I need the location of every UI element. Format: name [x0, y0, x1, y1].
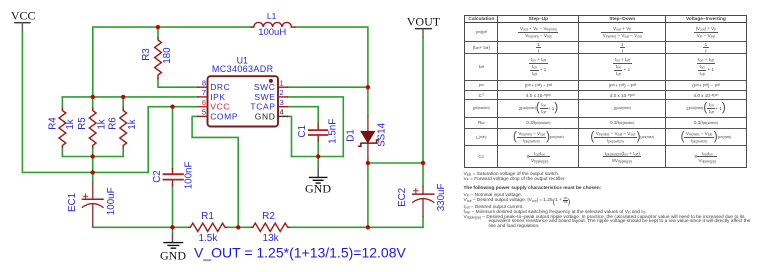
wire R5 stubs [92, 97, 94, 157]
svg-text:3: 3 [280, 98, 284, 107]
wire C2 top / bottom [172, 107, 174, 228]
svg-text:SWC: SWC [254, 82, 276, 92]
svg-text:100nF: 100nF [184, 161, 195, 189]
pin1 marker dot [269, 79, 273, 83]
junction EC2 top / VOUT port [421, 161, 425, 165]
junction C1 bottom / gnd bus [316, 154, 320, 158]
svg-text:8: 8 [202, 79, 206, 88]
wire D1 anode/cathode verticals [367, 87, 369, 163]
net flag VCC [11, 9, 36, 32]
svg-text:R4: R4 [47, 117, 58, 130]
junction D1 cathode / VOUT wire [366, 161, 370, 165]
junction C2 bottom / bottom rail / GND [170, 225, 174, 229]
svg-text:5: 5 [202, 108, 206, 117]
svg-text:TCAP: TCAP [250, 102, 275, 112]
svg-text:13k: 13k [263, 233, 280, 244]
pin 8 lead [198, 86, 208, 88]
svg-text:100uF: 100uF [106, 187, 117, 215]
wire SWC pin1 [288, 86, 368, 88]
wire VOUT port vertical [422, 38, 424, 164]
wire IPK pin7 bus (tops of R4 R5 R6) [62, 96, 198, 98]
svg-text:GND: GND [305, 182, 331, 196]
ground symbol under C2 / bottom rail [160, 227, 186, 262]
pin 2 lead [278, 96, 288, 98]
junction SWC node (L1 / D1 / pin1) [366, 85, 370, 89]
junction bottom rail / VOUT drop [366, 225, 370, 229]
pin 6 lead (highlighted) [198, 106, 208, 108]
svg-text:D1: D1 [346, 129, 357, 142]
svg-text:1k: 1k [127, 119, 138, 129]
svg-text:180: 180 [162, 47, 173, 64]
svg-text:COMP: COMP [210, 111, 238, 121]
svg-text:1.5nF: 1.5nF [328, 119, 339, 144]
diode D1 SS14 schottky [367, 116, 369, 159]
svg-text:IPK: IPK [210, 92, 226, 102]
pin 1 lead [278, 86, 288, 88]
datasheet calculation table [464, 15, 746, 168]
wire EC1 stubs [92, 172, 94, 227]
wire R3 top/bottom, DRC pin8 [158, 27, 198, 87]
wire GND pin4 [288, 116, 292, 156]
resistor R2 13k horizontal [251, 223, 289, 231]
svg-text:4: 4 [280, 108, 284, 117]
svg-text:VCC: VCC [11, 9, 36, 23]
wire TCAP pin3 to C1 [288, 107, 319, 124]
svg-text:VCC: VCC [210, 102, 230, 112]
svg-text:R5: R5 [77, 117, 88, 130]
svg-text:L1: L1 [267, 11, 277, 21]
svg-text:R6: R6 [108, 117, 119, 130]
resistor R1 1.5k horizontal [189, 223, 227, 231]
wire bottom rail [93, 226, 423, 228]
svg-text:100uH: 100uH [258, 27, 286, 38]
IC U1 MC34063ADR body [208, 76, 279, 126]
svg-text:EC2: EC2 [397, 188, 408, 207]
svg-text:1k: 1k [96, 119, 107, 129]
svg-text:SS14: SS14 [377, 122, 388, 147]
junction EC1 top / VCC wire [91, 170, 95, 174]
svg-text:GND: GND [255, 111, 276, 121]
notes under table [464, 168, 756, 170]
wire gnd bus under C1 [292, 156, 344, 158]
wire EC2 stubs [422, 163, 424, 227]
svg-text:GND: GND [160, 248, 186, 262]
capacitor EC1 100uF polarized [92, 183, 94, 227]
pin 7 lead [198, 96, 208, 98]
svg-text:1k: 1k [65, 119, 76, 129]
junction feedback divider tap [236, 225, 240, 229]
svg-text:330uF: 330uF [436, 183, 447, 211]
junction C2 top / VCC pin6 wire [170, 105, 174, 109]
svg-text:C2: C2 [152, 170, 163, 183]
wire R4 stubs [61, 97, 63, 157]
ground symbol under C1 [305, 157, 331, 196]
svg-text:7: 7 [202, 88, 206, 97]
resistor R4 1k [59, 109, 66, 148]
resistor R5 1k [89, 109, 96, 148]
svg-text:SWE: SWE [254, 92, 275, 102]
svg-text:DRC: DRC [210, 82, 230, 92]
wire resistor-bottom bus [62, 157, 123, 173]
wire COMP pin5 to divider tap [192, 116, 238, 227]
svg-text:EC1: EC1 [67, 193, 78, 212]
svg-text:R1: R1 [201, 211, 214, 222]
capacitor C1 1.5nF [317, 124, 319, 141]
junction R5 top / IPK bus [91, 95, 95, 99]
svg-text:R3: R3 [141, 48, 152, 61]
wire SWE pin2 to gnd bus [288, 97, 344, 157]
inductor L1 100uH [251, 26, 295, 28]
wire VOUT horizontal from D1 to EC2 [368, 162, 423, 164]
svg-text:1.5k: 1.5k [198, 233, 218, 244]
svg-text:MC34063ADR: MC34063ADR [212, 64, 274, 74]
capacitor EC2 330uF polarized [422, 187, 424, 217]
net flag VOUT [407, 15, 441, 38]
svg-text:1: 1 [280, 79, 284, 88]
junction R6 top / IPK bus [121, 95, 125, 99]
wire C1 bottom [317, 141, 319, 157]
wire VCC down and to riser of pin6 [22, 32, 198, 172]
svg-text:C1: C1 [297, 125, 308, 138]
junction R3 top / top rail [156, 25, 160, 29]
wire D1 node down to bottom rail [367, 163, 369, 227]
svg-text:6: 6 [202, 98, 206, 107]
wire riser to top rail and rail to L1 [93, 27, 252, 97]
junction R5 bottom / sense bus [91, 154, 95, 158]
pin 4 lead [278, 115, 288, 117]
capacitor C2 100nF [172, 169, 174, 186]
wire R6 stubs [122, 97, 124, 157]
svg-text:R2: R2 [262, 211, 275, 222]
pin 5 lead [198, 115, 208, 117]
resistor R3 180 vertical [155, 38, 162, 79]
svg-text:2: 2 [280, 88, 284, 97]
svg-text:V_OUT = 1.25*(1+13/1.5)=12.08V: V_OUT = 1.25*(1+13/1.5)=12.08V [194, 245, 406, 261]
resistor R6 1k [120, 109, 127, 148]
wire rail right of L1 down to SWC node [295, 27, 368, 87]
svg-text:VOUT: VOUT [407, 15, 441, 29]
pin 3 lead [278, 106, 288, 108]
